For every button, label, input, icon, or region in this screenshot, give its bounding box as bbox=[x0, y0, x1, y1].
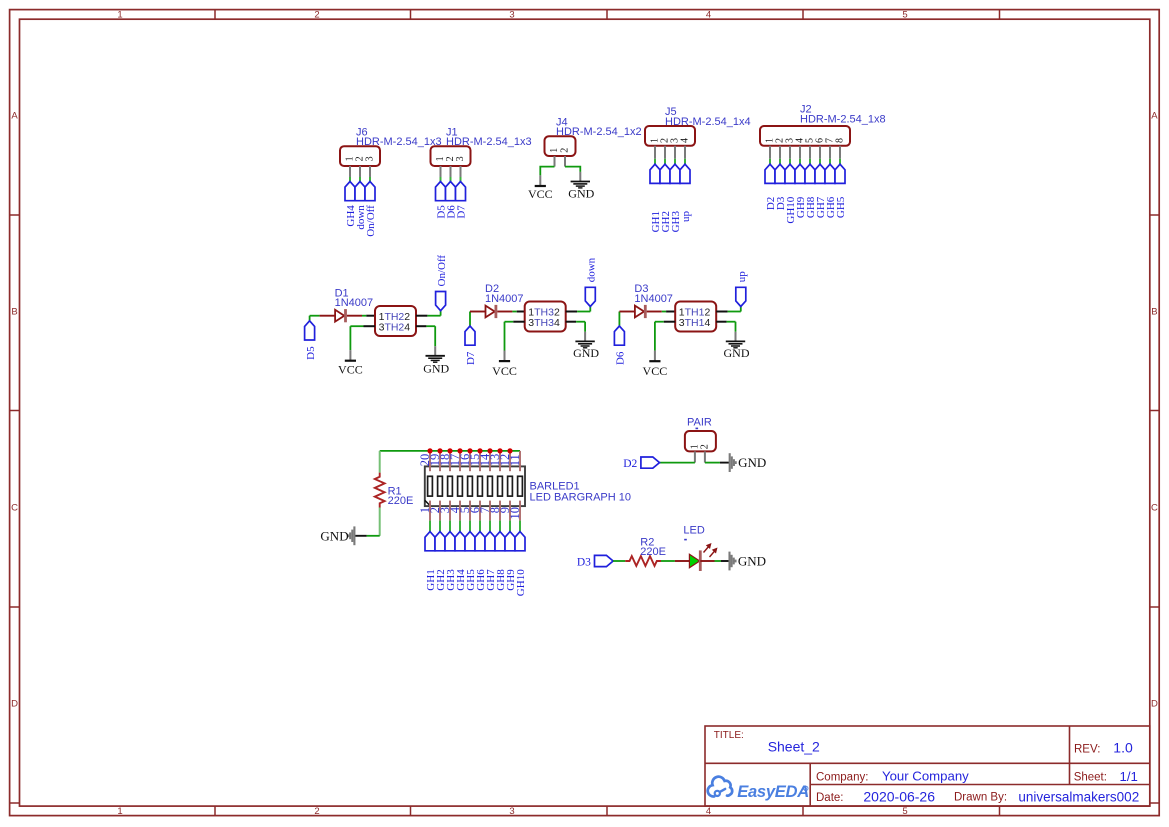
wire bbox=[427, 315, 440, 317]
svg-text:3: 3 bbox=[509, 806, 514, 817]
LED arrows bbox=[704, 543, 718, 557]
optocoupler U (1TH32/3TH34) bbox=[525, 302, 566, 332]
net port down bbox=[355, 182, 365, 201]
connector J5 HDR-M-2.54_1x4 bbox=[645, 126, 695, 146]
wire bbox=[489, 521, 491, 532]
pin 8 (bottom) bbox=[499, 501, 501, 521]
pin 12 (top) bbox=[509, 451, 511, 471]
net port GH10 bbox=[515, 532, 525, 551]
wire bbox=[469, 312, 471, 327]
wire bbox=[512, 311, 516, 313]
svg-text:GH10: GH10 bbox=[515, 569, 527, 596]
svg-text:1.0: 1.0 bbox=[1113, 740, 1133, 756]
svg-text:Sheet:: Sheet: bbox=[1074, 772, 1107, 784]
wire bbox=[499, 521, 501, 532]
wire bbox=[565, 167, 580, 172]
wire bbox=[505, 321, 514, 323]
svg-text:up: up bbox=[736, 271, 748, 283]
net port D6 bbox=[446, 182, 456, 201]
svg-text:VCC: VCC bbox=[338, 362, 363, 376]
wire bbox=[715, 560, 722, 562]
svg-text:LED BARGRAPH 10: LED BARGRAPH 10 bbox=[530, 492, 631, 504]
pin 1 (bottom) bbox=[429, 501, 431, 521]
pin 4 bbox=[716, 321, 726, 323]
svg-text:3: 3 bbox=[509, 10, 514, 21]
pin 14 (top) bbox=[489, 451, 491, 471]
pin 5 (bottom) bbox=[469, 501, 471, 521]
pin 15 (top) bbox=[479, 451, 481, 471]
svg-text:On/Off: On/Off bbox=[436, 255, 448, 287]
connector J1 HDR-M-2.54_1x3 bbox=[431, 146, 471, 166]
svg-text:D5: D5 bbox=[305, 346, 317, 360]
LED segment 3 bbox=[448, 476, 453, 496]
wire bbox=[576, 321, 585, 323]
LED bargraph BARLED1 bbox=[425, 466, 525, 506]
svg-text:D2: D2 bbox=[623, 458, 637, 470]
svg-text:Company:: Company: bbox=[816, 771, 868, 783]
pin 16 (top) bbox=[469, 451, 471, 471]
pin 9 (bottom) bbox=[509, 501, 511, 521]
LED segment 5 bbox=[468, 476, 473, 496]
pin 2 of R1 bbox=[379, 508, 381, 536]
net port up bbox=[680, 164, 690, 183]
net port GH2 bbox=[435, 532, 445, 551]
net port down bbox=[585, 287, 595, 306]
svg-text:LED: LED bbox=[683, 525, 704, 537]
ground bbox=[434, 346, 436, 355]
ground bbox=[579, 172, 581, 181]
wire bbox=[426, 325, 435, 327]
svg-text:5: 5 bbox=[902, 806, 907, 817]
net port GH10 bbox=[785, 164, 795, 183]
net port D7 bbox=[465, 326, 475, 345]
svg-text:2: 2 bbox=[314, 806, 319, 817]
LED segment 4 bbox=[458, 476, 463, 496]
svg-text:D7: D7 bbox=[465, 351, 477, 365]
diode D1 1N4007 bbox=[320, 315, 336, 317]
svg-text:1: 1 bbox=[117, 806, 122, 817]
net port D3 bbox=[595, 555, 614, 566]
svg-text:A: A bbox=[1151, 111, 1158, 122]
svg-text:REV:: REV: bbox=[1074, 743, 1100, 755]
svg-text:1: 1 bbox=[549, 148, 560, 153]
svg-text:HDR-M-2.54_1x4: HDR-M-2.54_1x4 bbox=[665, 116, 751, 128]
net port GH9 bbox=[795, 164, 805, 183]
wire bbox=[309, 316, 311, 321]
pin 2 bbox=[416, 315, 427, 317]
LED segment 8 bbox=[498, 476, 503, 496]
net port GH7 bbox=[485, 532, 495, 551]
LED indicator bbox=[675, 560, 690, 562]
LED segment 10 bbox=[518, 476, 523, 496]
pin 2 bbox=[566, 311, 577, 313]
net port GH6 bbox=[825, 164, 835, 183]
wire bbox=[577, 311, 590, 313]
net port On/Off bbox=[365, 182, 375, 201]
pin 6 (bottom) bbox=[479, 501, 481, 521]
pin 1 bbox=[666, 311, 675, 313]
svg-text:4: 4 bbox=[706, 806, 711, 817]
pin 11 (top) bbox=[519, 451, 521, 471]
svg-text:universalmakers002: universalmakers002 bbox=[1018, 789, 1139, 804]
power VCC bbox=[654, 351, 656, 361]
ground flag bbox=[730, 552, 736, 571]
svg-text:11: 11 bbox=[508, 454, 522, 466]
wire bbox=[655, 321, 664, 323]
svg-text:5: 5 bbox=[902, 10, 907, 21]
wire bbox=[721, 560, 730, 562]
svg-text:4: 4 bbox=[706, 10, 711, 21]
pin 4 (bottom) bbox=[459, 501, 461, 521]
resistor R1 220E bbox=[375, 473, 385, 508]
pin 3 bbox=[513, 321, 525, 323]
pin 3 (bottom) bbox=[449, 501, 451, 521]
svg-text:GND: GND bbox=[724, 346, 750, 360]
svg-text:1N4007: 1N4007 bbox=[485, 293, 524, 305]
svg-text:up: up bbox=[680, 211, 692, 223]
svg-text:3: 3 bbox=[455, 156, 466, 161]
svg-text:1N4007: 1N4007 bbox=[634, 293, 673, 305]
wire bbox=[449, 521, 451, 532]
net port GH1 bbox=[425, 532, 435, 551]
svg-text:GND: GND bbox=[320, 528, 348, 543]
svg-text:C: C bbox=[1151, 503, 1158, 514]
connector J4 HDR-M-2.54_1x2 bbox=[545, 136, 576, 156]
junction bbox=[507, 448, 512, 453]
wire bbox=[618, 312, 620, 327]
power VCC bbox=[504, 351, 506, 361]
svg-text:VCC: VCC bbox=[643, 364, 668, 378]
pin 17 (top) bbox=[459, 451, 461, 471]
svg-text:10: 10 bbox=[508, 507, 522, 520]
pin-1 notch bbox=[425, 500, 431, 506]
LED segment 7 bbox=[488, 476, 493, 496]
junction bbox=[457, 448, 462, 453]
pin 4 bbox=[566, 321, 576, 323]
net port GH6 bbox=[475, 532, 485, 551]
svg-text:D: D bbox=[1151, 699, 1158, 710]
pin 19 (top) bbox=[439, 451, 441, 471]
net port On/Off bbox=[436, 292, 446, 311]
net port GH3 bbox=[445, 532, 455, 551]
wire bbox=[660, 462, 695, 464]
power VCC bbox=[349, 350, 351, 360]
svg-text:GND: GND bbox=[423, 361, 449, 375]
wire bbox=[662, 311, 666, 313]
svg-text:1: 1 bbox=[117, 10, 122, 21]
svg-text:VCC: VCC bbox=[492, 364, 517, 378]
net port GH2 bbox=[660, 164, 670, 183]
wire bbox=[720, 462, 730, 464]
junction bbox=[477, 448, 482, 453]
ground bbox=[584, 332, 586, 341]
title block bbox=[705, 726, 1150, 806]
diode D2 1N4007 bbox=[470, 311, 486, 313]
svg-text:B: B bbox=[11, 307, 17, 318]
pin 4 bbox=[416, 325, 426, 327]
svg-text:Your Company: Your Company bbox=[882, 769, 969, 784]
svg-text:220E: 220E bbox=[640, 546, 666, 558]
junction bbox=[467, 448, 472, 453]
net port GH7 bbox=[815, 164, 825, 183]
net port D5 bbox=[436, 182, 446, 201]
svg-text:Drawn By:: Drawn By: bbox=[954, 792, 1007, 804]
ground bbox=[735, 332, 737, 341]
wire bbox=[509, 521, 511, 532]
pin 20 (top) bbox=[429, 451, 431, 471]
svg-text:D6: D6 bbox=[615, 351, 627, 365]
svg-text:HDR-M-2.54_1x2: HDR-M-2.54_1x2 bbox=[556, 126, 642, 138]
svg-text:3TH14: 3TH14 bbox=[679, 317, 711, 329]
net port up bbox=[736, 287, 746, 306]
svg-text:2: 2 bbox=[314, 10, 319, 21]
junction bbox=[427, 448, 432, 453]
svg-text:8: 8 bbox=[834, 138, 845, 143]
LED segment 9 bbox=[508, 476, 513, 496]
optocoupler U (1TH12/3TH14) bbox=[675, 302, 716, 332]
junction bbox=[497, 448, 502, 453]
net port D5 bbox=[305, 321, 315, 340]
wire bbox=[705, 462, 720, 464]
pin 1 of R1 bbox=[379, 451, 381, 473]
svg-text:PAIR: PAIR bbox=[687, 417, 712, 429]
svg-text:EasyEDA: EasyEDA bbox=[737, 782, 809, 801]
pin 7 (bottom) bbox=[489, 501, 491, 521]
svg-text:2020-06-26: 2020-06-26 bbox=[863, 788, 935, 804]
svg-text:GND: GND bbox=[568, 187, 594, 201]
connector J6 HDR-M-2.54_1x3 bbox=[340, 146, 380, 166]
LED segment 2 bbox=[438, 476, 443, 496]
pin 3 bbox=[364, 325, 376, 327]
wire bbox=[727, 321, 736, 323]
power VCC bbox=[539, 175, 541, 185]
svg-text:GND: GND bbox=[573, 346, 599, 360]
svg-text:3TH24: 3TH24 bbox=[379, 321, 411, 333]
diode D3 1N4007 bbox=[619, 311, 635, 313]
wire bbox=[350, 325, 363, 327]
svg-text:On/Off: On/Off bbox=[365, 205, 377, 237]
net port GH9 bbox=[505, 532, 515, 551]
net port D3 bbox=[775, 164, 785, 183]
pin 2 bbox=[716, 311, 727, 313]
svg-text:down: down bbox=[586, 257, 598, 282]
svg-text:HDR-M-2.54_1x3: HDR-M-2.54_1x3 bbox=[356, 136, 442, 148]
junction bbox=[487, 448, 492, 453]
svg-text:1N4007: 1N4007 bbox=[335, 297, 374, 309]
wire bbox=[362, 315, 366, 317]
svg-text:Date:: Date: bbox=[816, 792, 844, 804]
ground flag bbox=[348, 526, 354, 545]
wire bbox=[429, 521, 431, 532]
pin 2 (bottom) bbox=[439, 501, 441, 521]
svg-text:Sheet_2: Sheet_2 bbox=[768, 738, 820, 754]
svg-text:D: D bbox=[11, 699, 18, 710]
wire bbox=[661, 560, 675, 562]
junction bbox=[447, 448, 452, 453]
svg-text:HDR-M-2.54_1x8: HDR-M-2.54_1x8 bbox=[800, 113, 886, 125]
pin 1 bbox=[366, 315, 375, 317]
svg-text:220E: 220E bbox=[388, 495, 414, 507]
svg-text:3: 3 bbox=[364, 156, 375, 161]
net port GH3 bbox=[670, 164, 680, 183]
ground flag bbox=[730, 453, 736, 472]
LED segment 1 bbox=[428, 476, 433, 496]
optocoupler U (1TH22/3TH24) bbox=[375, 306, 416, 336]
junction bbox=[437, 448, 442, 453]
svg-text:D3: D3 bbox=[577, 556, 591, 568]
resistor R2 220E bbox=[625, 556, 661, 566]
connector J2 HDR-M-2.54_1x8 bbox=[760, 126, 850, 146]
svg-text:3TH34: 3TH34 bbox=[528, 317, 560, 329]
net port GH4 bbox=[345, 182, 355, 201]
pin 1 bbox=[517, 311, 525, 313]
net port GH1 bbox=[650, 164, 660, 183]
svg-text:D7: D7 bbox=[456, 205, 468, 219]
wire bbox=[469, 521, 471, 532]
wire bbox=[439, 521, 441, 532]
wire bbox=[459, 521, 461, 532]
wire bbox=[519, 521, 521, 532]
net port D2 bbox=[641, 457, 660, 468]
svg-text:GND: GND bbox=[738, 554, 766, 569]
svg-text:HDR-M-2.54_1x3: HDR-M-2.54_1x3 bbox=[446, 136, 532, 148]
svg-text:TITLE:: TITLE: bbox=[714, 730, 744, 741]
svg-text:B: B bbox=[1151, 307, 1157, 318]
svg-text:A: A bbox=[11, 111, 18, 122]
LED segment 6 bbox=[478, 476, 483, 496]
net port D7 bbox=[456, 182, 466, 201]
wire bbox=[479, 521, 481, 532]
net port GH4 bbox=[455, 532, 465, 551]
net port GH8 bbox=[805, 164, 815, 183]
net port D2 bbox=[765, 164, 775, 183]
pin 3 bbox=[664, 321, 676, 323]
pin 13 (top) bbox=[499, 451, 501, 471]
net port D6 bbox=[614, 326, 624, 345]
svg-text:R: R bbox=[804, 787, 807, 792]
net port GH5 bbox=[835, 164, 845, 183]
EasyEDA logo bbox=[708, 777, 732, 797]
svg-text:2: 2 bbox=[699, 444, 710, 449]
svg-text:VCC: VCC bbox=[528, 187, 553, 201]
svg-text:4: 4 bbox=[679, 138, 690, 143]
net port GH8 bbox=[495, 532, 505, 551]
svg-text:1/1: 1/1 bbox=[1120, 769, 1138, 784]
net port GH5 bbox=[465, 532, 475, 551]
svg-text:2: 2 bbox=[559, 148, 570, 153]
wire bbox=[380, 450, 520, 452]
wire bbox=[540, 167, 554, 176]
svg-text:C: C bbox=[11, 503, 18, 514]
wire bbox=[355, 535, 367, 537]
connector PAIR bbox=[685, 431, 716, 451]
pin 18 (top) bbox=[449, 451, 451, 471]
svg-text:GH5: GH5 bbox=[835, 196, 847, 218]
pin 10 (bottom) bbox=[519, 501, 521, 521]
wire bbox=[613, 560, 625, 562]
svg-text:GND: GND bbox=[738, 455, 766, 470]
wire bbox=[728, 311, 741, 313]
wire bbox=[367, 535, 380, 537]
